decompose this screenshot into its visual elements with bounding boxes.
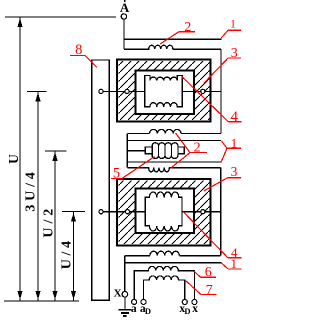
- svg-text:D: D: [145, 306, 151, 316]
- svg-text:X: X: [114, 287, 122, 299]
- svg-text:7: 7: [206, 283, 213, 298]
- svg-text:A: A: [120, 0, 130, 15]
- svg-text:3: 3: [231, 46, 238, 61]
- svg-text:2: 2: [194, 141, 201, 156]
- svg-text:8: 8: [75, 42, 82, 58]
- svg-text:U: U: [6, 154, 21, 164]
- svg-text:U/2: U/2: [42, 205, 57, 238]
- svg-text:U/4: U/4: [60, 237, 75, 269]
- svg-text:4: 4: [231, 109, 239, 125]
- svg-text:1: 1: [231, 256, 238, 271]
- svg-text:3U/4: 3U/4: [23, 168, 38, 211]
- svg-text:1: 1: [231, 136, 238, 151]
- svg-text:6: 6: [205, 265, 212, 280]
- svg-text:D: D: [184, 306, 190, 316]
- svg-text:x: x: [192, 303, 198, 315]
- svg-text:3: 3: [231, 164, 238, 179]
- svg-text:5: 5: [113, 165, 120, 181]
- svg-text:1: 1: [230, 19, 236, 31]
- svg-text:2: 2: [184, 20, 191, 35]
- svg-text:a: a: [131, 303, 137, 315]
